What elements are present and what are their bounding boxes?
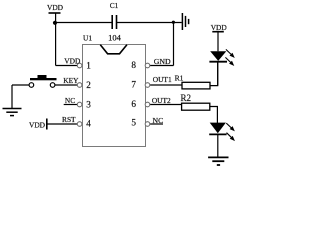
svg-text:5: 5: [131, 118, 136, 128]
svg-text:VDD: VDD: [47, 3, 64, 12]
svg-text:VDD: VDD: [29, 120, 46, 129]
svg-text:6: 6: [131, 99, 136, 109]
svg-text:C1: C1: [110, 1, 119, 10]
svg-text:NC: NC: [152, 116, 163, 125]
svg-text:GND: GND: [154, 57, 171, 66]
svg-text:R2: R2: [180, 93, 191, 103]
svg-text:7: 7: [131, 79, 136, 89]
svg-text:R1: R1: [175, 74, 184, 83]
svg-text:KEY: KEY: [63, 76, 79, 85]
svg-text:OUT1: OUT1: [153, 75, 172, 84]
svg-text:VDD: VDD: [64, 57, 81, 66]
svg-text:1: 1: [86, 61, 91, 71]
svg-text:2: 2: [86, 80, 91, 90]
svg-text:VDD: VDD: [211, 23, 228, 32]
svg-text:8: 8: [131, 60, 136, 70]
svg-text:U1: U1: [83, 34, 92, 43]
svg-text:104: 104: [108, 33, 122, 43]
svg-text:OUT2: OUT2: [152, 96, 171, 105]
svg-text:3: 3: [86, 100, 91, 110]
svg-text:4: 4: [86, 118, 91, 128]
svg-text:RST: RST: [62, 115, 76, 124]
svg-text:NC: NC: [65, 96, 75, 105]
